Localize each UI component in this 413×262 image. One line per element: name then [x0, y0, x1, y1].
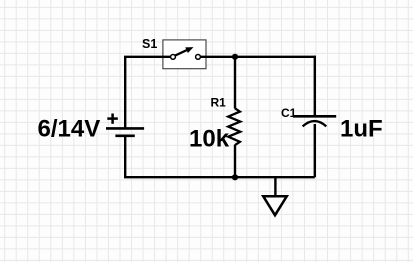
ground symbol triangle	[263, 196, 287, 215]
switch S1 lever arrowhead	[185, 47, 193, 53]
capacitor C1 top plate	[293, 115, 336, 118]
wire middle vertical top: junction to resistor	[234, 57, 236, 109]
wire right vertical bottom: capacitor to bottom wire	[314, 124, 316, 177]
battery plus polarity mark	[107, 114, 118, 124]
svg-text:S1: S1	[142, 37, 157, 51]
wire top-left: battery top to switch	[125, 57, 170, 128]
svg-text:10k: 10k	[189, 125, 230, 152]
node junction bottom at ground rail	[232, 174, 238, 180]
switch S1 lever arm	[175, 49, 189, 56]
svg-text:6/14V: 6/14V	[38, 116, 101, 143]
svg-text:R1: R1	[211, 96, 227, 110]
node junction top at switch output	[232, 54, 238, 60]
battery V1 6/14V	[106, 128, 144, 135]
wire top-right: switch to right corner	[201, 56, 315, 58]
switch S1 body box	[163, 40, 206, 69]
ground stub wire	[274, 177, 276, 196]
capacitor C1 curved plate	[303, 121, 327, 126]
wire bottom: battery bottom along to right corner	[125, 137, 315, 177]
wire middle vertical bottom: resistor to bottom junction	[234, 145, 236, 177]
switch S1 right terminal	[196, 55, 201, 60]
svg-text:1uF: 1uF	[340, 116, 383, 143]
svg-text:C1: C1	[281, 106, 297, 120]
switch S1 left terminal	[171, 55, 176, 60]
resistor R1 zigzag	[228, 108, 240, 145]
wire right vertical top: corner to capacitor	[314, 56, 316, 116]
